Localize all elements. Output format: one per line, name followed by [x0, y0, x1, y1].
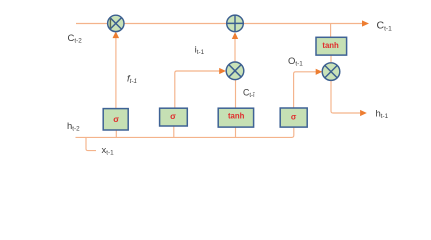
- wire: candidate multiply up to add gate: [232, 32, 238, 62]
- svg-text:σ: σ: [170, 111, 176, 121]
- wire: stub below forget sigma: [115, 130, 117, 137]
- output gate sigma box: [280, 108, 307, 127]
- forget gate sigma box: [103, 109, 128, 130]
- wire: candidate tanh box up to candidate multiply: [235, 80, 237, 108]
- wire: output multiply down and right to h_t-1: [331, 81, 367, 117]
- svg-text:σ: σ: [291, 112, 297, 121]
- wire: cell state line from C_t-2 across top to C_t-1: [76, 20, 369, 26]
- multiply gate circle (input x candidate): [226, 62, 244, 80]
- wire: branch from cell line down to tanh box: [330, 24, 332, 38]
- wire: tanh box down to output multiply: [330, 55, 332, 63]
- multiply gate circle (output): [322, 63, 340, 81]
- svg-text:tanh: tanh: [228, 112, 245, 121]
- wire: stub below candidate tanh: [235, 127, 237, 137]
- multiply gate circle (forget): [108, 15, 124, 31]
- candidate tanh box: [218, 108, 253, 127]
- input gate sigma box: [160, 108, 188, 126]
- wire: output gate sigma up and right to output multiply: [294, 69, 323, 108]
- wire: input gate sigma up and right to candidate multiply: [175, 68, 226, 108]
- wire: forget gate sigma up to forget multiply: [113, 31, 120, 108]
- add gate circle: [227, 15, 244, 32]
- wire: input line h_t-2 along bottom rising into output sigma: [76, 127, 294, 137]
- svg-text:σ: σ: [113, 114, 119, 124]
- tanh activation box (output path): [316, 37, 347, 55]
- wire: x_t-1 input hook: [86, 137, 96, 150]
- wire: stub below input sigma: [173, 126, 175, 137]
- svg-text:tanh: tanh: [322, 41, 339, 50]
